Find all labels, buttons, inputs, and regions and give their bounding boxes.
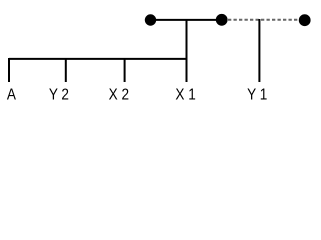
svg-text:X 2: X 2 <box>109 87 129 104</box>
svg-text:A: A <box>7 87 16 104</box>
svg-text:X 1: X 1 <box>175 87 195 104</box>
svg-text:Y 2: Y 2 <box>49 87 69 104</box>
svg-text:Y 1: Y 1 <box>247 87 267 104</box>
